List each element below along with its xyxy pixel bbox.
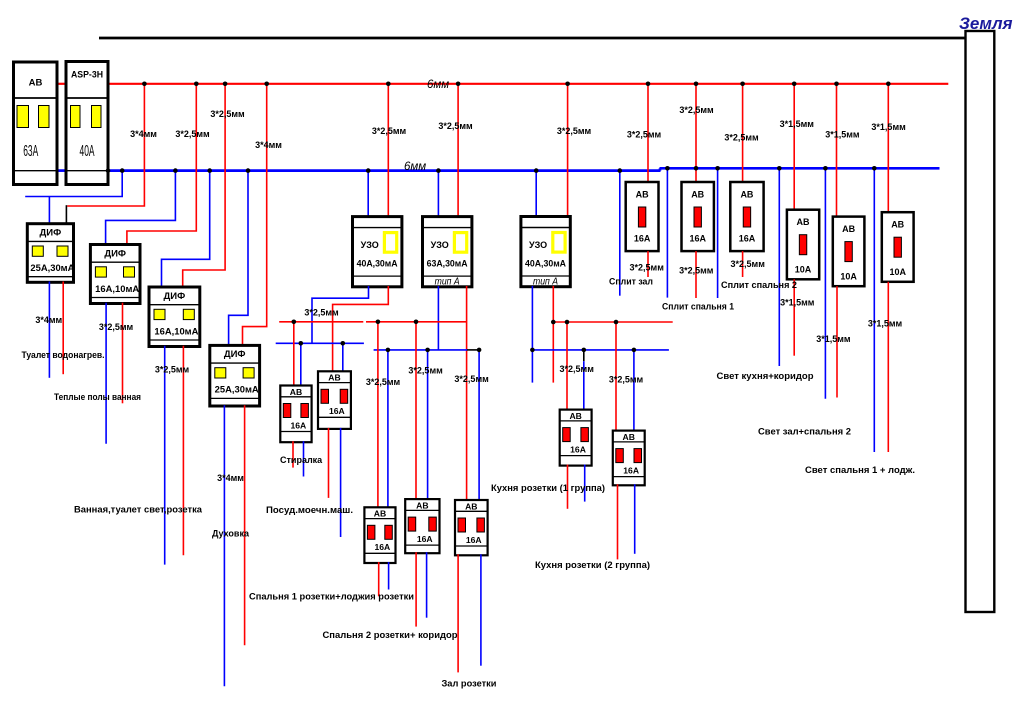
junction L1 bus / Свет зал (834, 82, 839, 87)
wire L group line C (кухня группа) (553, 321, 672, 323)
junction group B N / Спальня 1 (386, 348, 391, 353)
svg-text:3*2,5мм: 3*2,5мм (609, 374, 644, 384)
svg-text:16А: 16А (570, 445, 586, 455)
junction L1 bus / Сплит сп1 (694, 82, 699, 87)
wire L1 to АВ Сплит зал (647, 84, 649, 182)
wire N from bus to ДИФ1 branch line (25, 171, 122, 197)
wire L tail ДИФ4 to load (244, 405, 246, 645)
breaker Стиралка АВ 16А two-pole (280, 386, 311, 443)
svg-text:3*2,5мм: 3*2,5мм (627, 130, 662, 140)
wire L1 bus (red phase) (108, 83, 948, 85)
svg-text:16А: 16А (329, 406, 345, 416)
svg-text:3*2,5мм: 3*2,5мм (560, 364, 595, 374)
wire N drop Сплит спальня 2 (717, 168, 719, 298)
RCBO ДИФ2 (теплые полы) ДИФ 16А,10мА (90, 245, 140, 304)
wire L1 to АВ Сплит спальня 2 (742, 84, 744, 182)
wire N bus jog (659, 168, 662, 170)
svg-text:тип А: тип А (435, 276, 460, 287)
svg-text:Спальня 1 розетки+лоджия розет: Спальня 1 розетки+лоджия розетки (249, 592, 414, 602)
junction N bus / ДИФ1 (120, 168, 125, 173)
ground bus bar (966, 31, 995, 612)
wire N drop to АВ Стиралка (300, 343, 302, 386)
junction L1 bus / Сплит зал (646, 82, 651, 87)
breaker Зал розетки АВ 16А two-pole (455, 500, 488, 555)
breaker Спальня 2 АВ 16А two-pole (405, 499, 439, 553)
wire N from bus to ДИФ3 (162, 171, 210, 288)
svg-text:40А: 40А (80, 143, 95, 160)
junction L1 bus / Сплит сп2 (740, 82, 745, 87)
junction N bus / Свет кух N (777, 166, 782, 171)
junction group B N / Спальня 2 (425, 348, 430, 353)
svg-text:3*2,5мм: 3*2,5мм (210, 109, 245, 119)
RCBO ДИФ1 (туалет водонагреватель) ДИФ 25А,30мА (27, 224, 75, 283)
svg-text:Сплит зал: Сплит зал (609, 276, 653, 286)
wire N group line A (276, 342, 364, 344)
svg-text:16А: 16А (634, 234, 651, 244)
junction group C L / Кухня 2 (614, 320, 619, 325)
svg-text:3*2,5мм: 3*2,5мм (372, 126, 407, 136)
junction group C L / УЗО3 tail (551, 320, 556, 325)
wire L tail УЗО3 (stub through group line) (552, 286, 554, 383)
junction L1 bus / ДИФ3 (223, 82, 228, 87)
svg-text:Кухня розетки (2 группа): Кухня розетки (2 группа) (535, 560, 650, 570)
svg-text:25А,30мА: 25А,30мА (30, 263, 75, 273)
wire L tail АВ Кухня 2 (617, 484, 619, 559)
junction N bus / ДИФ3 (207, 168, 212, 173)
svg-text:40А,30мА: 40А,30мА (357, 258, 398, 268)
junction L1 bus / УЗО1 (386, 82, 391, 87)
junction group C N / УЗО3 tail (530, 348, 535, 353)
svg-text:3*1,5мм: 3*1,5мм (780, 298, 815, 308)
junction group B L / Спальня 2 (414, 320, 419, 325)
wire N bus right part (660, 167, 940, 170)
wire N tail АВ Зал розетки (480, 554, 482, 665)
junction L1 bus / Свет сп1 (886, 82, 891, 87)
svg-text:УЗО: УЗО (361, 240, 379, 250)
wire N drop Свет спальня 1+лоджия (873, 168, 875, 452)
svg-text:АВ: АВ (328, 373, 340, 383)
wire N drop Сплит спальня 1 (666, 168, 668, 297)
junction N bus / Сплит сп2 N (715, 166, 720, 171)
junction group A L / Стиралка (292, 320, 297, 325)
wire N drop to АВ Кухня 2 (633, 350, 635, 432)
wire L1 from bus to ДИФ1 (67, 84, 144, 206)
junction L1 bus / УЗО2 (456, 82, 461, 87)
wire L tail АВ Посуд.моечн.маш. (328, 428, 330, 498)
wire N tail ДИФ2 to load (105, 303, 107, 444)
svg-text:10А: 10А (795, 265, 812, 275)
svg-text:3*2,5мм: 3*2,5мм (731, 259, 766, 269)
wire N tail ДИФ1 to load (48, 282, 50, 378)
svg-text:3*2,5мм: 3*2,5мм (454, 374, 489, 384)
wire N tail АВ Кухня 1 (584, 465, 586, 502)
svg-text:16А: 16А (739, 234, 756, 244)
svg-text:3*2,5мм: 3*2,5мм (304, 308, 339, 318)
breaker Кухня 2 группа АВ 16А two-pole (613, 431, 645, 486)
svg-text:АВ: АВ (290, 387, 302, 397)
wire L drop to АВ Стиралка (293, 322, 295, 387)
wire L1 to АВ Свет зал+спальня 2 (836, 84, 838, 217)
junction L1 bus / ДИФ4 (264, 82, 269, 87)
svg-text:3*4мм: 3*4мм (217, 473, 244, 483)
svg-text:3*2,5мм: 3*2,5мм (99, 322, 134, 332)
wire L tail АВ Свет кухня+коридор (793, 279, 795, 355)
wire L1 from bus to УЗО3 (567, 84, 569, 218)
svg-text:УЗО: УЗО (529, 240, 547, 250)
svg-text:3*1,5мм: 3*1,5мм (871, 122, 906, 132)
wire N tail ДИФ4 to load (223, 405, 225, 686)
junction N bus / ДИФ2 (173, 168, 178, 173)
junction N bus / Сплит сп1 L cross (694, 166, 699, 171)
svg-text:ДИФ: ДИФ (164, 291, 186, 302)
svg-text:АВ: АВ (842, 224, 855, 234)
wire L1 from bus to ДИФ3 (183, 84, 225, 288)
wire N tail УЗО3 (stub through group line) (531, 286, 533, 383)
wire N bus left part (blue neutral) (108, 169, 661, 172)
svg-text:Спальня 2 розетки+ коридор: Спальня 2 розетки+ коридор (323, 630, 459, 640)
RCBO ДИФ4 (духовка) ДИФ 25А,30мА (210, 345, 260, 406)
svg-text:ДИФ: ДИФ (224, 349, 246, 360)
svg-text:Туалет водонагрев.: Туалет водонагрев. (22, 350, 105, 360)
svg-text:3*2,5мм: 3*2,5мм (366, 377, 401, 387)
junction group A N / Посуд (341, 341, 346, 346)
svg-text:АВ: АВ (29, 77, 43, 88)
wire PE top ground line (99, 37, 965, 40)
junction group A N / Стиралка (299, 341, 304, 346)
svg-text:3*2,5мм: 3*2,5мм (438, 121, 473, 131)
svg-text:3*2,5мм: 3*2,5мм (724, 133, 759, 143)
wire N group line C (532, 349, 669, 351)
wire L tail АВ Сплит спальня 1 (695, 251, 697, 298)
RCD УЗО2 УЗО 63А,30мА (423, 217, 472, 288)
svg-text:АВ: АВ (416, 500, 428, 510)
svg-text:Духовка: Духовка (212, 529, 250, 539)
svg-text:Свет кухня+коридор: Свет кухня+коридор (717, 371, 815, 381)
wire L1 to АВ Свет кухня+коридор (793, 84, 795, 210)
junction N bus / УЗО3 (534, 168, 539, 173)
wire L tail АВ Сплит зал (647, 251, 649, 277)
wire L1 to АВ Сплит спальня 1 (695, 84, 697, 182)
junction group C N / Кухня 2 (632, 348, 637, 353)
wire into ДИФ1 right terminal (black) (65, 205, 67, 224)
junction L1 bus / ДИФ2 (194, 82, 199, 87)
wire N bus segment between main breakers (57, 169, 68, 172)
svg-text:16А: 16А (623, 466, 639, 476)
wire L tail АВ Свет спальня 1+лоджия (887, 282, 889, 452)
breaker Сплит спальня 1 АВ 16А single-pole (682, 182, 714, 251)
breaker Сплит зал АВ 16А single-pole (626, 182, 659, 251)
wire L tail УЗО1 into АВ Посуд.моечн.маш. (333, 286, 389, 372)
wire L drop to АВ Кухня 2 (615, 322, 617, 431)
wire L1 to АВ Свет спальня 1+лоджия (887, 84, 889, 212)
wire N from bus to УЗО3 (535, 171, 537, 218)
junction N bus / Свет зал N (823, 166, 828, 171)
wire L drop to АВ Спальня 2 (415, 322, 417, 500)
svg-text:3*2,5мм: 3*2,5мм (630, 263, 665, 273)
svg-text:Свет зал+спальня 2: Свет зал+спальня 2 (758, 427, 851, 437)
svg-text:3*4мм: 3*4мм (130, 129, 157, 139)
svg-text:6мм: 6мм (404, 161, 426, 173)
svg-text:6мм: 6мм (427, 79, 449, 91)
svg-text:Стиралка: Стиралка (280, 455, 323, 465)
wire N tail УЗО2 to group line (437, 286, 439, 350)
wire L drop to АВ Кухня 1 (566, 322, 568, 410)
wire N drop to АВ Кухня 1 (583, 361, 585, 410)
wire N from bus to ДИФ4 (229, 171, 248, 347)
svg-text:Посуд.моечн.маш.: Посуд.моечн.маш. (266, 505, 353, 515)
svg-text:3*4мм: 3*4мм (35, 315, 62, 325)
breaker Кухня 1 группа АВ 16А two-pole (560, 410, 592, 466)
wire N tail АВ Спальня 2 (426, 552, 428, 618)
wire L1 from bus to УЗО1 (387, 84, 389, 218)
svg-text:3*2,5мм: 3*2,5мм (679, 266, 714, 276)
svg-text:Земля: Земля (959, 14, 1013, 33)
svg-text:16А: 16А (417, 534, 433, 544)
svg-text:АВ: АВ (636, 189, 649, 199)
svg-text:16А: 16А (374, 542, 390, 552)
wire L group line A (стиралка группа) (279, 321, 363, 323)
svg-text:16А: 16А (466, 535, 482, 545)
svg-text:Кухня розетки (1 группа): Кухня розетки (1 группа) (491, 483, 605, 493)
junction N bus / ASP (106, 168, 111, 173)
svg-text:Сплит спальня 2: Сплит спальня 2 (721, 280, 797, 290)
wire L tail ДИФ2 to load (122, 303, 124, 404)
wire N drop Сплит зал (619, 171, 621, 296)
svg-text:тип А: тип А (533, 276, 558, 287)
wire L tail АВ Кухня 1 (567, 465, 569, 509)
svg-text:АВ: АВ (374, 509, 386, 519)
wire L tail АВ Спальня 2 (415, 552, 417, 626)
svg-text:ДИФ: ДИФ (104, 248, 126, 259)
wire L tail АВ Зал розетки (457, 554, 459, 672)
wire N drop to АВ Кухня 1 black top segment (583, 350, 585, 361)
breaker Сплит спальня 2 АВ 16А single-pole (730, 182, 763, 251)
svg-text:16А,10мА: 16А,10мА (154, 326, 199, 336)
svg-text:10А: 10А (840, 272, 857, 282)
svg-text:АВ: АВ (623, 432, 635, 442)
breaker Посуд.моечн.маш. АВ 16А two-pole (318, 371, 351, 429)
wire N drop to АВ Зал розетки (478, 350, 480, 501)
svg-text:16А: 16А (689, 234, 706, 244)
wire N tail УЗО1 to group line (312, 286, 369, 343)
wire N drop into ДИФ1 (48, 197, 50, 225)
junction group B N / Зал (477, 348, 482, 353)
wire N tail ДИФ3 to load (164, 346, 166, 565)
RCD УЗО3 УЗО 40А,30мА (521, 217, 570, 288)
svg-text:Свет спальня 1 + лодж.: Свет спальня 1 + лодж. (805, 465, 915, 475)
wire L tail АВ Свет зал+спальня 2 (836, 286, 838, 397)
wire L tail АВ Стиралка (292, 441, 294, 467)
svg-text:Зал розетки: Зал розетки (442, 679, 497, 689)
wire N drop to АВ Посуд.моечн.маш. (342, 343, 344, 372)
svg-text:Сплит спальня 1: Сплит спальня 1 (662, 301, 734, 311)
wire L tail ДИФ1 to load (62, 282, 64, 375)
junction L1 bus / Свет кух (792, 82, 797, 87)
svg-text:3*2,5мм: 3*2,5мм (679, 105, 714, 115)
svg-text:АВ: АВ (797, 217, 810, 227)
wire N tail АВ Посуд.моечн.маш. (340, 428, 342, 537)
junction L1 bus / УЗО3 (565, 82, 570, 87)
wire L tail АВ Спальня 1 (378, 562, 380, 596)
svg-text:АВ: АВ (569, 411, 581, 421)
wire N drop Свет кухня+коридор (778, 168, 780, 366)
junction N bus / УЗО2 (436, 168, 441, 173)
svg-text:АВ: АВ (740, 189, 753, 199)
wire L1 from bus to ДИФ4 (243, 84, 267, 346)
svg-text:3*1,5мм: 3*1,5мм (825, 130, 860, 140)
svg-text:10А: 10А (889, 267, 906, 277)
wire L tail АВ Сплит спальня 2 (742, 251, 744, 277)
svg-text:40А,30мА: 40А,30мА (525, 258, 566, 268)
junction N bus / Сплит зал N (618, 168, 623, 173)
svg-text:Ванная,туалет свет,розетка: Ванная,туалет свет,розетка (74, 505, 203, 515)
svg-text:ASP-3H: ASP-3H (71, 70, 103, 80)
svg-text:3*1,5мм: 3*1,5мм (868, 318, 903, 328)
wire L tail ДИФ3 to load (182, 346, 184, 556)
wire N tail АВ Кухня 2 (634, 484, 636, 554)
svg-text:16А,10мА: 16А,10мА (95, 284, 140, 294)
svg-text:УЗО: УЗО (431, 240, 449, 250)
junction N bus / ДИФ4 (246, 168, 251, 173)
svg-text:3*2,5мм: 3*2,5мм (408, 366, 443, 376)
breaker АВ 63А main (14, 62, 58, 185)
wire N drop Свет зал+спальня 2 (824, 168, 826, 398)
svg-text:3*4мм: 3*4мм (255, 140, 282, 150)
surge device ASP-3Н 40А (66, 62, 108, 185)
breaker Спальня 1 АВ 16А two-pole (364, 507, 395, 563)
svg-text:3*2,5мм: 3*2,5мм (175, 129, 210, 139)
RCD УЗО1 УЗО 40А,30мА (353, 217, 402, 287)
svg-text:Теплые полы ванная: Теплые полы ванная (54, 392, 141, 402)
junction N bus / Сплит сп1 N (665, 166, 670, 171)
svg-text:63А,30мА: 63А,30мА (427, 258, 468, 268)
svg-text:АВ: АВ (465, 501, 477, 511)
svg-text:3*1,5мм: 3*1,5мм (780, 119, 815, 129)
svg-text:16А: 16А (290, 420, 306, 430)
RCBO ДИФ3 (ванная свет) ДИФ 16А,10мА (149, 287, 200, 347)
wire N drop to АВ Спальня 1 (387, 350, 389, 508)
svg-text:63А: 63А (23, 143, 38, 160)
wire L drop to АВ Спальня 1 (377, 322, 379, 508)
wire N tail АВ Спальня 1 (388, 562, 390, 590)
wire L tail УЗО2 down into АВ Зал розетки (466, 286, 468, 501)
breaker Свет спальня 1+лоджия АВ 10А single-pole (882, 212, 914, 282)
junction N bus / УЗО1 (366, 168, 371, 173)
wire N from bus to ДИФ2 (106, 171, 176, 246)
junction group C N / Кухня 1 (582, 348, 587, 353)
junction group B L / Спальня 1 (376, 320, 381, 325)
wire L group line B (розетки группа) (366, 321, 467, 323)
svg-text:3*2,5мм: 3*2,5мм (155, 365, 190, 375)
svg-text:ДИФ: ДИФ (40, 228, 62, 239)
wire L1 bus segment between main breakers (57, 83, 67, 85)
svg-text:АВ: АВ (691, 189, 704, 199)
breaker Свет зал+спальня 2 АВ 10А single-pole (833, 217, 865, 287)
wire N from bus to УЗО2 (437, 171, 439, 218)
junction L1 bus / ДИФ1 (142, 82, 147, 87)
breaker Свет кухня+коридор АВ 10А single-pole (787, 210, 819, 280)
wire N group line B black segment (467, 349, 480, 351)
junction group C L / Кухня 1 (565, 320, 570, 325)
wire L1 from bus to УЗО2 (457, 84, 459, 218)
wire N from bus to УЗО1 (367, 171, 369, 218)
junction N bus / Свет сп1 N (872, 166, 877, 171)
wire N group line B (374, 349, 467, 351)
wire N tail АВ Стиралка (303, 441, 305, 476)
wire N drop to АВ Спальня 2 (427, 350, 429, 500)
svg-text:3*1,5мм: 3*1,5мм (816, 334, 851, 344)
wire L1 from bus to ДИФ2 (127, 84, 196, 246)
svg-text:АВ: АВ (891, 220, 904, 230)
svg-text:3*2,5мм: 3*2,5мм (557, 126, 592, 136)
svg-text:25А,30мА: 25А,30мА (215, 385, 260, 395)
